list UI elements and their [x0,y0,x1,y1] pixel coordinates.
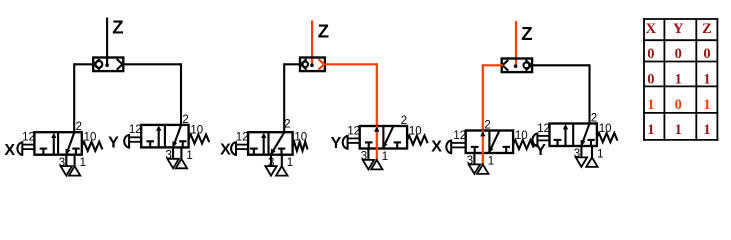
svg-text:10: 10 [294,132,307,144]
wire shuttle SV1 left port to valve V1 port 2 [74,63,93,132]
valve V6 (Y input, circuit 3) port 3 line [580,146,582,157]
svg-text:2: 2 [76,121,82,133]
shuttle valve SV2 ball [303,62,308,67]
svg-text:1: 1 [488,156,494,168]
valve V2 (Y input, circuit 1) left box: blocked port symbol [146,141,154,147]
valve V5 (X input, circuit 3, actuated) right box: exhaust path 2-3 with arrow [489,131,499,153]
valve V1 (X input, circuit 1) exhaust symbol at port 3 [61,166,72,176]
valve V3 (X input, circuit 2) left box: blocked port symbol [250,149,258,155]
svg-text:2: 2 [182,114,188,126]
valve V5 (X input, circuit 3, actuated) active flow path 1-2 (highlighted) [482,130,484,164]
valve V3 (X input, circuit 2) right box: blocked port symbol [278,149,285,155]
valve V5 (X input, circuit 3, actuated) body (3/2-way valve) [466,131,513,154]
svg-text:0: 0 [675,97,682,113]
svg-text:X: X [646,21,657,37]
valve V3 (X input, circuit 2) exhaust symbol at port 3 [265,166,276,176]
valve V1 (X input, circuit 1) left box: blocked port symbol [40,149,48,155]
shuttle valve SV3 ball [524,62,530,68]
valve V5 (X input, circuit 3, actuated) right box: blocked port symbol [503,147,510,153]
shuttle valve SV3 outlet junction [514,64,518,68]
valve V4 (Y input, circuit 2, actuated) right box: exhaust path 2-3 with arrow [383,127,393,149]
valve V4 (Y input, circuit 2, actuated) flow arrow head [375,127,380,132]
valve V2 (Y input, circuit 1) port 1 line [180,147,182,158]
valve V6 (Y input, circuit 3) right box: blocked port symbol [587,140,594,146]
valve V3 (X input, circuit 2) body (3/2-way valve) [248,132,293,155]
svg-text:1: 1 [703,122,710,138]
svg-text:Z: Z [521,23,532,44]
svg-text:3: 3 [59,157,65,169]
svg-text:X: X [220,142,231,159]
valve V5 (X input, circuit 3, actuated) flow arrow head [481,132,486,137]
truth table grid [643,18,718,141]
svg-text:1: 1 [382,151,388,163]
svg-text:Z: Z [318,21,329,42]
svg-text:0: 0 [675,46,682,62]
svg-text:12: 12 [453,130,466,142]
valve V4 (Y input, circuit 2, actuated) active flow path 1-2 (highlighted) [376,126,378,160]
svg-text:10: 10 [515,130,528,142]
shuttle valve SV3 right seat [526,60,532,71]
valve V3 (X input, circuit 2) right box: exhaust path 2-3 with arrow [271,133,284,155]
valve V4 (Y input, circuit 2, actuated) return spring [407,136,428,145]
svg-text:Y: Y [108,135,119,152]
valve V5 (X input, circuit 3, actuated) pilot port 12 connection [446,141,465,154]
valve V2 (Y input, circuit 1) right box: blocked port symbol [179,141,186,147]
shuttle valve SV1 right seat [117,59,123,70]
valve V1 (X input, circuit 1) port 1 line [74,155,76,166]
svg-text:2: 2 [401,115,407,127]
valve V5 (X input, circuit 3, actuated) pressure source at port 1 [477,164,488,174]
svg-text:12: 12 [22,132,35,144]
valve V3 (X input, circuit 2) pilot port 12 connection [231,142,248,155]
svg-text:3: 3 [574,148,580,160]
valve V4 (Y input, circuit 2, actuated) exhaust symbol at port 3 [363,160,374,170]
valve V2 (Y input, circuit 1) return spring [189,135,210,144]
valve V5 (X input, circuit 3, actuated) return spring [513,140,534,149]
valve V5 (X input, circuit 3, actuated) left box: blocked port symbol [471,147,479,153]
valve V6 (Y input, circuit 3) port 1 line [591,146,593,157]
valve V3 (X input, circuit 2) port 3 line [270,155,272,166]
valve V1 (X input, circuit 1) pressure source at port 1 [69,166,80,176]
valve V1 (X input, circuit 1) pilot port 12 connection [17,142,34,155]
valve V1 (X input, circuit 1) right box: blocked port symbol [72,149,79,155]
svg-text:10: 10 [409,126,422,138]
svg-text:2: 2 [591,113,597,125]
valve V1 (X input, circuit 1) return spring [82,142,103,151]
svg-text:0: 0 [647,46,654,62]
svg-text:X: X [431,139,442,156]
svg-text:1: 1 [647,97,654,113]
svg-text:10: 10 [84,132,97,144]
shuttle valve SV2 left seat [301,59,307,70]
shuttle valve SV1 left seat [94,59,100,70]
svg-text:3: 3 [467,155,473,167]
svg-text:1: 1 [675,72,682,88]
svg-text:10: 10 [599,123,612,135]
valve V1 (X input, circuit 1) left box: flow arrow 1-2 [52,133,57,154]
valve V2 (Y input, circuit 1) exhaust symbol at port 3 [167,159,178,169]
valve V6 (Y input, circuit 3) pilot port 12 connection [532,134,549,147]
valve V4 (Y input, circuit 2, actuated) left box: blocked port symbol [365,142,373,148]
valve V6 (Y input, circuit 3) body (3/2-way valve) [550,124,597,147]
valve V2 (Y input, circuit 1) pressure source at port 1 [176,159,187,169]
valve V4 (Y input, circuit 2, actuated) pilot port 12 connection [343,136,360,149]
svg-text:3: 3 [361,151,367,163]
valve V3 (X input, circuit 2) port 1 line [281,155,283,166]
shuttle valve SV1 body [93,58,123,72]
valve V5 (X input, circuit 3, actuated) port 3 line [473,153,475,164]
svg-text:0: 0 [703,46,710,62]
truth table row 1 0 1 [647,97,710,113]
valve V6 (Y input, circuit 3) pressure source at port 1 [586,157,597,167]
svg-text:Y: Y [331,135,342,152]
valve V6 (Y input, circuit 3) left box: blocked port symbol [554,140,562,146]
valve V2 (Y input, circuit 1) pilot port 12 connection [124,135,141,148]
valve V2 (Y input, circuit 1) port 3 line [172,147,174,158]
valve V2 (Y input, circuit 1) left box: flow arrow 1-2 [156,126,161,146]
truth table row 0 0 0 [647,46,710,62]
wire shuttle SV3 right port to valve V6 port 2 [532,64,589,123]
valve V1 (X input, circuit 1) port 3 line [65,155,67,166]
svg-text:X: X [4,142,15,159]
node Z output line (circuit 2, highlighted) [311,21,313,66]
valve V6 (Y input, circuit 3) return spring [597,133,618,142]
valve V6 (Y input, circuit 3) exhaust symbol at port 3 [576,157,587,167]
svg-text:12: 12 [537,123,550,135]
svg-text:3: 3 [165,150,171,162]
valve V4 (Y input, circuit 2, actuated) port 3 line [367,149,369,160]
valve V3 (X input, circuit 2) pressure source at port 1 [276,166,287,176]
valve V3 (X input, circuit 2) return spring [293,142,308,151]
svg-text:1: 1 [287,157,293,169]
valve V5 (X input, circuit 3, actuated) exhaust symbol at port 3 [469,164,480,174]
svg-text:Z: Z [702,21,712,37]
shuttle valve SV2 body [300,58,325,72]
valve V1 (X input, circuit 1) right box: exhaust path 2-3 with arrow [66,133,75,155]
wire shuttle SV2 right port to valve V4 port 2 (highlighted flow) [324,63,377,126]
svg-text:2: 2 [484,120,490,132]
shuttle valve SV1 ball [96,61,103,68]
valve V3 (X input, circuit 2) left box: flow arrow 1-2 [261,133,266,154]
valve V2 (Y input, circuit 1) body (3/2-way valve) [141,125,188,147]
svg-text:12: 12 [129,124,142,136]
svg-text:12: 12 [236,132,249,144]
svg-text:1: 1 [80,157,86,169]
svg-text:1: 1 [675,122,682,138]
svg-text:1: 1 [186,150,192,162]
valve V4 (Y input, circuit 2, actuated) pressure source at port 1 [371,160,382,170]
valve V2 (Y input, circuit 1) right box: exhaust path 2-3 with arrow [173,126,182,148]
svg-text:3: 3 [268,157,274,169]
wire shuttle SV2 left port to valve V3 port 2 [284,63,300,132]
valve V6 (Y input, circuit 3) left box: flow arrow 1-2 [563,125,568,146]
svg-text:1: 1 [703,97,710,113]
svg-text:2: 2 [284,119,290,131]
truth table header [646,21,712,37]
svg-text:Z: Z [112,17,123,38]
valve V4 (Y input, circuit 2, actuated) body (3/2-way valve) [360,126,407,149]
svg-text:1: 1 [597,149,603,161]
wire shuttle SV3 left port to valve V5 port 2 (highlighted flow) [483,64,503,130]
node Z output line (circuit 3, highlighted) [515,21,517,66]
valve V6 (Y input, circuit 3) right box: exhaust path 2-3 with arrow [581,124,590,146]
svg-text:0: 0 [647,72,654,88]
svg-text:1: 1 [703,72,710,88]
svg-text:10: 10 [190,124,203,136]
truth table row 1 1 1 [647,122,710,138]
shuttle valve SV1 outlet junction [105,63,109,67]
shuttle valve SV3 body [502,59,532,73]
svg-text:12: 12 [347,125,360,137]
svg-text:Y: Y [673,21,684,37]
shuttle valve SV2 right seat [318,59,324,70]
node Z output line (circuit 1) [106,18,108,66]
svg-text:1: 1 [647,122,654,138]
shuttle valve SV3 left seat [503,60,509,71]
wire shuttle SV1 right port to valve V2 port 2 [123,63,181,125]
truth table row 0 1 1 [647,72,710,88]
valve V1 (X input, circuit 1) body (3/2-way valve) [34,132,81,155]
svg-text:Y: Y [535,142,546,159]
shuttle valve SV2 outlet junction [310,63,314,67]
valve V4 (Y input, circuit 2, actuated) right box: blocked port symbol [394,142,401,148]
